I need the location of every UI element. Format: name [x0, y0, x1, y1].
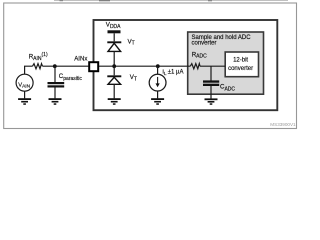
- resistor RADC: [190, 64, 200, 69]
- main wire AIN node line: [25, 66, 226, 74]
- chip boundary box: [94, 20, 278, 110]
- ground under Cparasitic: [49, 98, 62, 105]
- diode D2 to ground: [107, 76, 121, 84]
- wire node to CADC: [210, 66, 212, 80]
- wire VDDA rail to diode D1: [113, 33, 115, 41]
- voltage source VAIN: [16, 74, 33, 91]
- svg-text:12-bit: 12-bit: [233, 58, 248, 64]
- power rail VDDA: [108, 30, 121, 33]
- wire diode D2 to ground: [113, 84, 115, 98]
- node junction diodes: [112, 64, 116, 68]
- figure border frame: [4, 3, 297, 129]
- wire node to diode D2: [113, 66, 115, 75]
- svg-text:converter: converter: [192, 41, 217, 47]
- svg-text:IL±1 µA: IL±1 µA: [162, 70, 183, 76]
- node junction Cparasitic: [53, 64, 57, 68]
- cropped text remnant marks: [60, 0, 64, 1]
- capacitor Cparasitic: [48, 73, 83, 88]
- svg-text:MS33900V1: MS33900V1: [270, 122, 296, 127]
- ground under VAIN: [18, 98, 31, 105]
- ground under CADC: [205, 98, 218, 104]
- resistor RAIN: [33, 64, 43, 69]
- wire VAIN to ground: [24, 91, 26, 98]
- pin AINx pad: [89, 62, 98, 71]
- wire node to Cparasitic: [54, 66, 56, 82]
- wire diode D1 to node: [113, 51, 115, 66]
- current source IL: [149, 74, 166, 91]
- ground under current source: [151, 98, 164, 105]
- sample and hold ADC converter block: [188, 32, 264, 94]
- diode D1 to VDDA: [107, 42, 121, 51]
- capacitor CADC: [203, 80, 235, 92]
- cropped text remnant top line: [54, 0, 288, 2]
- svg-text:converter: converter: [228, 66, 253, 72]
- wire Cparasitic to ground: [54, 88, 56, 99]
- svg-text:AINx: AINx: [74, 55, 87, 62]
- ground under D2: [108, 98, 121, 105]
- wire CADC to ground: [210, 86, 212, 99]
- 12-bit converter block U1: [225, 52, 258, 77]
- node junction current source: [156, 64, 160, 68]
- wire node to current source: [157, 66, 159, 74]
- wire current source to ground: [157, 91, 159, 98]
